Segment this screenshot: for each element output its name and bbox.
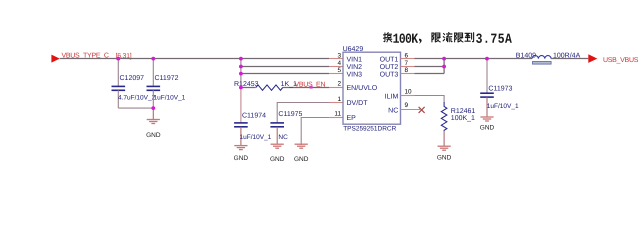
wire EN row left part [241, 87, 256, 89]
svg-text:4: 4 [337, 60, 341, 67]
pin stub OUT2 [401, 66, 415, 68]
resistor R12453 [256, 85, 283, 90]
ground C11974 [234, 146, 249, 162]
svg-text:GND: GND [480, 124, 495, 131]
node VBUS_TYPE_C at C12097 [116, 57, 120, 61]
pin stub EP [329, 117, 343, 119]
svg-text:2: 2 [337, 81, 341, 88]
note comma [419, 39, 422, 44]
svg-text:EN/UVLO: EN/UVLO [347, 84, 378, 92]
capacitor C11974 [234, 113, 272, 145]
wire OUT to bead [444, 58, 532, 60]
pin stub VIN3 [329, 73, 343, 75]
svg-text:GND: GND [270, 156, 285, 163]
svg-text:C11974: C11974 [242, 113, 266, 120]
note 限 glyph 2 [455, 33, 463, 42]
ground EP [294, 144, 309, 163]
note 限 glyph [432, 33, 440, 42]
pin stub NC with no-connect X [401, 109, 421, 111]
svg-text:TPS259251DRCR: TPS259251DRCR [343, 126, 396, 133]
junction EN tap [239, 86, 243, 90]
pin stub OUT1 [401, 58, 415, 60]
wire bead to port [551, 58, 588, 60]
svg-text:10: 10 [405, 89, 413, 96]
junction VIN1 tap [239, 57, 243, 61]
svg-text:1: 1 [337, 96, 341, 103]
net anchor mark [310, 86, 313, 89]
wire EP to GND [301, 118, 329, 146]
svg-text:NC: NC [388, 107, 398, 114]
svg-text:GND: GND [146, 132, 161, 139]
svg-text:100K_1: 100K_1 [451, 115, 475, 122]
svg-text:C11975: C11975 [278, 111, 302, 118]
pin stub OUT3 [401, 73, 415, 75]
wire EN row right part [283, 87, 329, 89]
svg-text:R12453: R12453 [234, 81, 259, 88]
svg-text:1uF/10V_1: 1uF/10V_1 [240, 134, 272, 141]
junction OUT2 tie [442, 65, 446, 69]
pin stub ILIM [401, 95, 415, 97]
svg-text:ILIM: ILIM [385, 93, 399, 100]
wire DV/DT to C11975 [277, 103, 329, 123]
pin stub DV/DT [329, 102, 343, 104]
ground C11975 [270, 144, 285, 163]
wire OUT rows to common node [415, 58, 445, 60]
note 到 glyph [465, 33, 474, 42]
wire vertical bus x=241 [240, 59, 242, 88]
capacitor C11973 [480, 59, 519, 118]
ground C11973 [480, 117, 495, 131]
port arrow VBUS_TYPE_C [51, 55, 59, 63]
pin stub VIN1 [329, 58, 343, 60]
svg-text:7: 7 [405, 60, 409, 67]
svg-text:C11973: C11973 [488, 85, 512, 92]
svg-text:EP: EP [347, 115, 357, 122]
resistor R12461 [441, 102, 447, 131]
svg-text:NC: NC [278, 134, 288, 141]
svg-text:C12097: C12097 [120, 75, 145, 82]
wire to GND [152, 108, 154, 119]
note 换 glyph [383, 33, 391, 42]
capacitor C11972 [147, 59, 186, 109]
svg-text:VIN1: VIN1 [347, 57, 363, 64]
svg-text:4.7uF/10V_2: 4.7uF/10V_2 [118, 95, 156, 102]
svg-text:DV/DT: DV/DT [347, 99, 369, 107]
capacitor C12097 [112, 59, 156, 109]
wire vertical OUT tie [443, 59, 445, 74]
pin stub VIN2 [329, 66, 343, 68]
svg-text:C11972: C11972 [155, 75, 179, 82]
svg-text:U6429: U6429 [343, 46, 364, 53]
svg-text:USB_VBUS: USB_VBUS [603, 57, 639, 64]
ground left pair [146, 120, 161, 139]
wire ILIM to R12461 [415, 96, 445, 103]
port arrow USB_VBUS [588, 54, 597, 63]
wire main VBUS rail [60, 58, 329, 60]
svg-text:5: 5 [337, 67, 341, 74]
ground R12461 [437, 146, 452, 161]
ferrite bead B1409 [516, 52, 581, 65]
wire VIN3 row [241, 73, 329, 75]
svg-text:3: 3 [337, 52, 341, 59]
svg-text:VIN3: VIN3 [347, 71, 363, 78]
svg-text:OUT3: OUT3 [380, 71, 399, 78]
note 流 glyph [443, 33, 452, 42]
svg-text:GND: GND [437, 154, 452, 161]
IC U6429 box [343, 52, 401, 124]
svg-text:VIN2: VIN2 [347, 64, 363, 71]
svg-text:1uF/10V_1: 1uF/10V_1 [487, 103, 519, 110]
wire VIN2 row [241, 66, 329, 68]
junction cap ground join [151, 106, 155, 110]
junction VIN2 tap [239, 65, 243, 69]
svg-text:11: 11 [334, 111, 341, 118]
svg-text:OUT2: OUT2 [380, 64, 399, 71]
title note text [383, 33, 511, 44]
junction VIN3 tap [239, 72, 243, 76]
pin stub EN/UVLO [329, 87, 343, 89]
wire cap bottoms join [118, 107, 153, 109]
wire R12461 to GND [443, 131, 445, 146]
svg-text:GND: GND [234, 155, 249, 162]
svg-text:GND: GND [294, 156, 309, 163]
capacitor C11975 [270, 111, 302, 144]
svg-text:OUT1: OUT1 [380, 57, 399, 64]
junction OUT1/OUT2 tie [442, 57, 446, 61]
svg-text:9: 9 [405, 102, 409, 109]
svg-text:1uF/10V_1: 1uF/10V_1 [154, 95, 186, 102]
node VBUS_TYPE_C at C11972 [151, 57, 155, 61]
junction USB_VBUS at C11973 [485, 57, 489, 61]
note latin 100K / 3.75A [393, 34, 511, 44]
